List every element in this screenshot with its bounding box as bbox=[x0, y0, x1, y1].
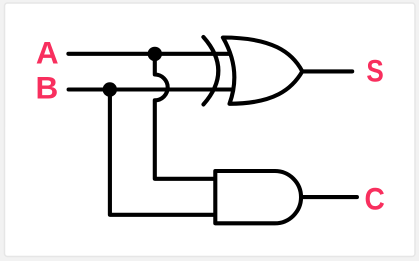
wire A input bbox=[68, 52, 231, 56]
junction node on B bbox=[103, 82, 117, 96]
svg-text:A: A bbox=[36, 34, 59, 70]
junction node on A bbox=[148, 47, 162, 61]
svg-text:B: B bbox=[36, 69, 59, 105]
xor gate U1 body bbox=[223, 38, 302, 104]
wire from node A down with hop over B, to AND top input bbox=[155, 54, 216, 179]
svg-text:C: C bbox=[365, 181, 385, 217]
wire B input bbox=[69, 87, 233, 91]
wire AND output to C bbox=[301, 195, 357, 199]
wire from node B down to AND bottom input bbox=[110, 90, 216, 215]
svg-text:S: S bbox=[366, 53, 383, 89]
xor gate U1 input-side double arc bbox=[203, 37, 218, 104]
wire XOR output to S bbox=[302, 69, 352, 73]
and gate U2 body bbox=[215, 171, 301, 223]
